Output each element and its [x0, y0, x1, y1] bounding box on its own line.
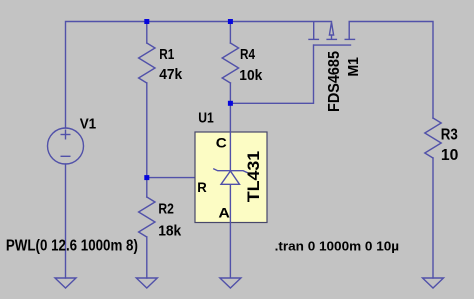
- svg-text:PWL(0 12.6 1000m 8): PWL(0 12.6 1000m 8): [6, 237, 138, 254]
- wire R2 bottom to ground: [146, 237, 148, 278]
- svg-text:R: R: [197, 179, 207, 195]
- voltage source V1: [48, 128, 84, 164]
- svg-text:47k: 47k: [159, 66, 182, 83]
- junction node C (R4 bottom): [228, 101, 233, 106]
- svg-text:M1: M1: [345, 57, 362, 77]
- svg-text:V1: V1: [80, 116, 97, 133]
- wire R1 top stub: [146, 22, 148, 44]
- svg-text:FDS4685: FDS4685: [326, 51, 343, 112]
- svg-text:TL431: TL431: [244, 151, 263, 203]
- transistor M1 (PMOS FDS4685): [308, 22, 355, 46]
- IC U1 TL431 body: [195, 132, 267, 223]
- svg-text:10: 10: [441, 147, 459, 164]
- resistor R1: [139, 43, 155, 83]
- wire R4 top stub: [229, 22, 231, 44]
- resistor R4: [222, 43, 238, 83]
- svg-text:18k: 18k: [158, 223, 181, 240]
- wire R3 bottom to ground: [432, 158, 434, 278]
- resistor R2: [139, 197, 155, 237]
- ground (R3): [423, 278, 444, 288]
- junction node N001 (R4 top): [228, 19, 233, 24]
- wire V1 bottom to ground: [65, 164, 67, 278]
- wire M1 drain to R3: [349, 22, 433, 119]
- svg-text:.tran 0 1000m 0 10µ: .tran 0 1000m 0 10µ: [275, 238, 400, 253]
- junction node N001 (R1 top): [144, 19, 149, 24]
- svg-text:U1: U1: [198, 109, 214, 126]
- svg-text:R2: R2: [158, 201, 174, 218]
- svg-text:R4: R4: [240, 46, 255, 63]
- wire node C to M1 gate: [230, 45, 313, 103]
- svg-text:R3: R3: [441, 126, 458, 143]
- ground (V1): [55, 278, 76, 288]
- junction node REF (R1/R2): [144, 175, 149, 180]
- wire top rail left (V1 to M1 source): [66, 22, 332, 129]
- wire node REF to R2: [146, 178, 148, 197]
- svg-text:C: C: [216, 134, 227, 150]
- ground (R2): [136, 278, 157, 288]
- wire node REF to TL431 R pin: [147, 177, 225, 179]
- TL431 internal symbol: [213, 103, 247, 278]
- wire R4 bottom to node C: [229, 83, 231, 103]
- resistor R3: [425, 118, 441, 158]
- svg-text:A: A: [218, 205, 230, 221]
- svg-text:R1: R1: [159, 46, 174, 63]
- svg-text:10k: 10k: [239, 67, 262, 84]
- wire R1 bottom to node REF: [146, 83, 148, 178]
- ground (U1 anode): [220, 278, 241, 288]
